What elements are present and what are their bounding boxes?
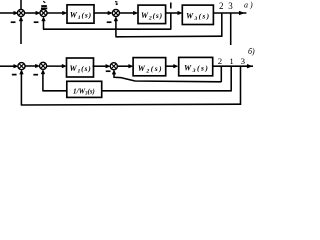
wire input to SJ1 (0, 12, 15, 14)
svg-text:W3(s): W3(s) (186, 11, 210, 22)
feedback line pickoff3b to SJ1b (21, 103, 241, 106)
wire block W2 to block W3 (166, 12, 180, 14)
svg-text:б): б) (248, 47, 255, 56)
minus sign at SJ3b (106, 71, 110, 72)
wire bottom feedback into SJ2b (42, 73, 44, 91)
wire SJ2b to block W1b (47, 65, 64, 67)
summing junction SJ2 (40, 9, 47, 16)
summing junction SJ1 (17, 9, 24, 16)
block 1/W3 (67, 81, 102, 97)
block W3 bottom (179, 57, 213, 75)
wire input to SJ1b (0, 65, 15, 67)
wire bottom feedback into SJ3b (114, 73, 221, 81)
svg-text:W2(s): W2(s) (138, 64, 163, 75)
minus sign at SJ2 (34, 22, 38, 23)
svg-text:W1(s): W1(s) (70, 64, 92, 75)
wire bottom feedback into SJ1b (20, 73, 22, 105)
svg-text:W1(s): W1(s) (70, 11, 92, 22)
wire SJ1 to SJ2 (25, 12, 38, 14)
wire bottom feedback into SJ3 (115, 20, 117, 36)
svg-text:W2(s): W2(s) (141, 11, 163, 22)
svg-text:a): a) (244, 1, 255, 10)
summing junction SJ1b (18, 63, 25, 70)
feedback line block 1/W3 to SJ2b (42, 90, 67, 92)
svg-text:1: 1 (229, 56, 233, 66)
pickoff point 1 with label (170, 3, 172, 9)
wire SJ1b to SJ2b (25, 65, 37, 67)
wire SJ3b to block W2b (117, 65, 130, 67)
summing junction SJ3 (112, 9, 119, 16)
block W3 top (182, 5, 213, 24)
wire bottom feedback into SJ2 (43, 20, 45, 29)
feedback line pickoff2 to SJ3 (115, 35, 222, 38)
output wire bottom (213, 65, 253, 67)
wire block W1b to SJ3b (93, 65, 108, 67)
summing junction SJ2b (40, 62, 47, 69)
node label above SJ3 (115, 1, 117, 4)
wire block W2b to block W3b (166, 65, 176, 67)
minus sign at SJ3 (107, 22, 111, 23)
block W2 top (138, 5, 166, 24)
svg-text:3: 3 (241, 56, 246, 66)
summing junction SJ3b (110, 63, 117, 70)
block W1 top (67, 5, 94, 23)
svg-text:W3(s): W3(s) (184, 63, 209, 74)
block W2 bottom (133, 58, 166, 76)
svg-text:1/W3(s): 1/W3(s) (73, 87, 95, 96)
svg-text:2: 2 (219, 1, 224, 11)
minus sign at SJ1 (11, 22, 15, 23)
wire SJ3 to block W2 (119, 12, 135, 14)
svg-text:2: 2 (218, 56, 222, 66)
feedback line pickoff1 to SJ2 (43, 28, 171, 30)
output wire top (213, 12, 246, 14)
minus sign at SJ1b (12, 74, 16, 75)
minus sign at SJ2b (34, 74, 38, 75)
feedback line pickoff1b to block 1/W3 (102, 90, 232, 92)
wire block W1 to SJ3 (94, 12, 110, 14)
svg-text:3: 3 (228, 1, 233, 11)
wire SJ2 to block W1 (47, 12, 64, 14)
wire bottom feedback into SJ1 (dead-end stub) (20, 20, 22, 44)
block W1 bottom (67, 58, 94, 77)
node label above SJ2 (43, 1, 45, 2)
wire top input into SJ1 (20, 0, 22, 9)
